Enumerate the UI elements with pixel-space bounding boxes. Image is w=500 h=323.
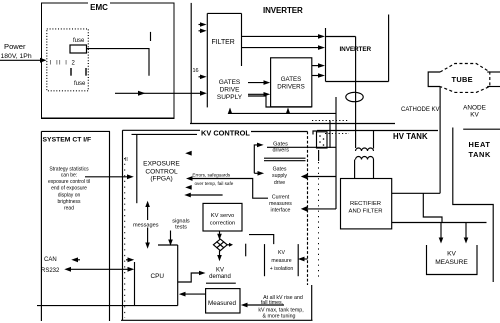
inverter box	[326, 15, 389, 82]
svg-text:fuse: fuse	[73, 38, 85, 44]
svg-text:CONTROL: CONTROL	[145, 168, 178, 175]
svg-text:Strategy statistics: Strategy statistics	[49, 166, 89, 172]
svg-text:INVERTER: INVERTER	[263, 6, 303, 15]
svg-text:l ll l 2: l ll l 2	[50, 60, 76, 66]
svg-text:SUPPLY: SUPPLY	[217, 94, 243, 101]
svg-text:EMC: EMC	[90, 3, 108, 12]
KV control inner dotted edge	[124, 158, 126, 318]
svg-text:KV: KV	[447, 251, 456, 258]
svg-text:GATES: GATES	[281, 76, 302, 83]
exposure control label	[143, 160, 180, 182]
wire errors to exposure	[189, 179, 268, 199]
svg-text:brightness: brightness	[57, 199, 81, 205]
svg-text:II: II	[125, 157, 128, 163]
gates drivers box	[271, 58, 312, 107]
messages arrow	[145, 201, 150, 249]
svg-text:TANK: TANK	[469, 150, 491, 159]
svg-text:RS232: RS232	[41, 268, 60, 274]
fuse F1	[70, 45, 87, 53]
arrow servo to multiplier	[217, 231, 222, 240]
kv measure feed wires	[392, 193, 487, 243]
wire cpu to kv demand	[178, 271, 206, 282]
current measures label	[269, 195, 292, 214]
wires drivers to inverter	[312, 63, 325, 78]
svg-text:tests: tests	[175, 225, 187, 231]
svg-text:EXPOSURE: EXPOSURE	[143, 160, 180, 167]
inverter output wire down	[355, 37, 357, 149]
svg-text:180V, 1Ph: 180V, 1Ph	[1, 53, 32, 60]
errors text	[192, 173, 233, 186]
svg-text:SYSTEM CT I/F: SYSTEM CT I/F	[43, 137, 92, 144]
rectifier label	[349, 201, 383, 215]
KV measure label	[435, 251, 468, 267]
system text block	[48, 166, 90, 211]
wire gates drivers out	[267, 146, 336, 148]
filter box	[207, 13, 241, 107]
gates drivers label (kv control)	[272, 142, 289, 154]
svg-text:GATES: GATES	[219, 79, 241, 86]
svg-text:read: read	[64, 205, 74, 211]
supply step wire	[248, 96, 312, 107]
connector dots	[319, 135, 324, 146]
CPU box	[37, 245, 178, 306]
gates power bus	[228, 108, 336, 114]
stub near diamond	[245, 244, 247, 257]
svg-text:signals: signals	[172, 219, 190, 225]
svg-text:end of exposure: end of exposure	[51, 186, 87, 192]
stub near EMC top	[150, 32, 152, 41]
messages label	[133, 220, 161, 228]
KV CONTROL box	[121, 130, 313, 320]
wire power input	[0, 58, 47, 63]
svg-text:+ isolation: + isolation	[270, 266, 294, 272]
breaker dotted box	[47, 29, 89, 91]
svg-text:demand: demand	[209, 274, 231, 280]
EMC enclosure box	[42, 3, 175, 118]
svg-text:fuse: fuse	[74, 81, 86, 87]
svg-text:DRIVERS: DRIVERS	[277, 83, 305, 90]
svg-text:Power: Power	[4, 42, 26, 51]
gates drive supply input arrow stub	[199, 75, 207, 80]
ANODE KV label	[463, 104, 486, 118]
svg-text:KV servo: KV servo	[211, 213, 235, 219]
EMC title	[88, 0, 110, 12]
svg-text:measure: measure	[271, 258, 291, 264]
svg-text:drive: drive	[274, 180, 285, 186]
SYSTEM CT I/F box	[41, 131, 110, 321]
svg-text:exposure control til: exposure control til	[48, 179, 90, 185]
wire text to measured	[241, 303, 284, 308]
svg-text:& more tuning: & more tuning	[263, 314, 296, 320]
filter input arrows	[199, 22, 207, 33]
INVERTER section bottom edge	[190, 123, 395, 125]
transformer T1	[355, 131, 374, 179]
KV demand label	[209, 267, 231, 280]
HEAT TANK title	[469, 140, 491, 159]
wire exposure params	[85, 174, 134, 179]
fuse bars	[71, 68, 86, 76]
stub below connector	[318, 150, 320, 161]
svg-text:TUBE: TUBE	[452, 75, 473, 84]
svg-text:KV: KV	[216, 267, 224, 273]
Measured box	[206, 289, 240, 313]
svg-text:KV CONTROL: KV CONTROL	[201, 128, 250, 137]
wire EMC to gates drive supply	[115, 91, 207, 96]
svg-text:HEAT: HEAT	[469, 140, 491, 149]
wires supply to gates drivers	[248, 80, 270, 96]
wires filter to inverter	[242, 34, 326, 50]
gates drive supply label	[217, 79, 243, 101]
svg-text:correction: correction	[210, 221, 235, 227]
signals arrow into cpu	[168, 231, 173, 246]
svg-text:fall times,: fall times,	[261, 300, 283, 306]
KV control inner top line	[132, 133, 198, 135]
svg-text:Gates: Gates	[273, 166, 287, 172]
wire measured to cpu	[179, 292, 206, 297]
svg-text:KV: KV	[470, 111, 479, 118]
multiplier diamond	[213, 239, 233, 251]
svg-text:Errors, safeguards: Errors, safeguards	[192, 173, 230, 178]
connector small box	[313, 121, 330, 149]
wire hv to gates supply	[301, 174, 336, 180]
svg-text:Measured: Measured	[208, 300, 236, 307]
HV tank top edge	[317, 129, 500, 130]
hv sense wire	[335, 97, 337, 209]
power input label	[1, 42, 32, 60]
svg-text:kV max, tank temp,: kV max, tank temp,	[258, 307, 303, 313]
svg-text:AND FILTER: AND FILTER	[349, 208, 383, 214]
cathode wire	[392, 87, 440, 194]
KV measure box	[427, 245, 478, 275]
svg-text:DRIVE: DRIVE	[220, 87, 241, 94]
KV servo correction label	[210, 213, 235, 227]
svg-text:CPU: CPU	[151, 273, 165, 280]
svg-text:interface: interface	[271, 207, 291, 213]
KV measure isolation box	[265, 244, 299, 276]
arrows into exposure control	[184, 151, 192, 198]
svg-text:over temp, fail safe: over temp, fail safe	[195, 181, 234, 186]
exposure control box	[136, 134, 138, 203]
svg-text:ANODE: ANODE	[463, 104, 486, 111]
svg-text:16: 16	[193, 68, 199, 74]
KV measure isolation label	[270, 250, 294, 272]
kv rise text block	[258, 295, 303, 320]
CAN wire	[71, 257, 134, 262]
RS232 wire	[64, 267, 134, 272]
svg-text:measures: measures	[269, 201, 292, 207]
svg-text:can be:: can be:	[61, 173, 77, 179]
svg-text:supply: supply	[272, 173, 287, 179]
svg-text:(FPGA): (FPGA)	[150, 176, 172, 183]
gates drivers box label	[277, 76, 305, 91]
svg-text:HV TANK: HV TANK	[393, 132, 428, 141]
svg-text:RECTIFIER: RECTIFIER	[350, 201, 381, 207]
wire into kv measure isolation	[298, 257, 308, 262]
dotted lines hv area	[312, 121, 349, 281]
INVERTER section left edge	[190, 3, 192, 124]
double bus lines	[264, 158, 306, 161]
wire hv to current measures	[301, 206, 336, 212]
current sensor ellipse	[346, 92, 363, 101]
svg-text:CAN: CAN	[44, 257, 57, 263]
wire tests to exposure	[189, 194, 223, 196]
arrow multiplier to kv demand	[217, 251, 222, 262]
signals tests label	[172, 219, 190, 231]
KV servo correction box	[203, 203, 242, 231]
svg-text:messages: messages	[133, 222, 159, 228]
wire servo area corner	[249, 235, 274, 245]
gates supply drive label	[272, 166, 287, 186]
heat tank wire	[453, 128, 493, 283]
X-ray tube	[428, 64, 500, 93]
wire to gates drivers label	[254, 143, 264, 176]
svg-text:drivers: drivers	[272, 148, 289, 154]
KV demand underline	[206, 282, 236, 284]
svg-text:MEASURE: MEASURE	[435, 259, 468, 266]
svg-text:KV: KV	[278, 250, 285, 256]
svg-text:Current: Current	[272, 195, 290, 201]
svg-text:FILTER: FILTER	[212, 39, 235, 46]
rectifier box	[341, 179, 392, 229]
svg-text:display on: display on	[58, 193, 81, 199]
svg-text:CATHODE KV: CATHODE KV	[401, 107, 440, 113]
wire from fuse to EMC interior	[87, 49, 150, 76]
